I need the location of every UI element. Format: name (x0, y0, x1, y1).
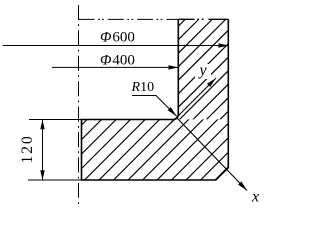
leader R10 (132, 96, 177, 117)
part outline (82, 19, 229, 180)
vertical center line (78, 5, 80, 205)
dimension Phi400 (52, 66, 178, 68)
svg-text:y: y (198, 62, 208, 79)
dimension Phi600 (3, 45, 228, 47)
svg-text:Φ600: Φ600 (100, 30, 135, 46)
svg-text:Φ400: Φ400 (100, 53, 135, 69)
top edge (chain-interrupted) (178, 18, 228, 20)
x axis (177, 118, 247, 191)
dimension 120 (28, 120, 82, 181)
white pocket for y label (195, 64, 211, 79)
svg-text:x: x (251, 189, 259, 206)
horizontal chain line (79, 18, 179, 20)
y axis (171, 78, 216, 123)
svg-text:120: 120 (19, 134, 36, 163)
svg-text:R10: R10 (131, 80, 155, 95)
